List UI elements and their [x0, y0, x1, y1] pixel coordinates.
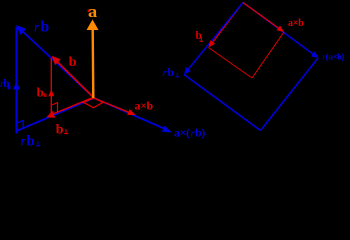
svg-text:a×(: a×( — [174, 126, 190, 140]
svg-text:a×b: a×b — [288, 18, 304, 29]
svg-text:a: a — [88, 2, 98, 21]
svg-text:b: b — [41, 19, 50, 36]
svg-text:b: b — [27, 134, 35, 149]
svg-text:b: b — [37, 84, 44, 99]
svg-text:b): b) — [195, 126, 205, 140]
svg-text:b: b — [69, 55, 77, 70]
svg-text:b: b — [56, 122, 64, 137]
svg-text:): ) — [341, 51, 344, 61]
svg-text:b: b — [168, 67, 174, 79]
svg-text:a×b: a×b — [135, 99, 154, 113]
svg-text:r: r — [34, 21, 40, 36]
